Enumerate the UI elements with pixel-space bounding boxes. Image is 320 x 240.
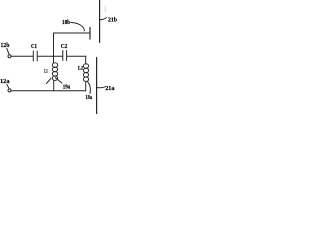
scan smudge (104, 7, 106, 13)
node junction A vertical (53, 33, 55, 57)
bottom wire (11, 90, 86, 92)
capacitor C1 (33, 51, 37, 61)
svg-text:18a: 18a (85, 95, 92, 101)
antenna rod 21b (99, 0, 101, 43)
leader 21b (100, 18, 106, 20)
leader 18a (88, 82, 91, 94)
svg-text:L1: L1 (44, 69, 48, 75)
wire C2 to corner (67, 55, 86, 57)
svg-text:12b: 12b (0, 42, 9, 49)
svg-text:C2: C2 (61, 43, 68, 50)
terminal 12a (8, 89, 11, 92)
terminal 12b (8, 55, 11, 58)
inductor L2 (83, 56, 88, 91)
capacitor C2 (63, 51, 67, 61)
svg-text:12a: 12a (0, 78, 10, 85)
leader 12a (7, 84, 9, 88)
svg-text:L2: L2 (78, 66, 83, 72)
leader 18b (71, 22, 85, 31)
svg-text:18b: 18b (62, 19, 70, 26)
coupling plate 18b (89, 28, 91, 40)
svg-text:21b: 21b (108, 17, 117, 24)
svg-text:19a: 19a (63, 85, 71, 91)
svg-text:C1: C1 (31, 43, 37, 50)
leader 12b (7, 49, 9, 54)
wire C1 to C2 (38, 55, 63, 57)
wire 12b to C1 (11, 55, 33, 57)
leader 19a (55, 78, 62, 84)
svg-text:21a: 21a (105, 85, 115, 92)
inductor L1 (52, 57, 57, 91)
leader 21a (97, 86, 105, 89)
antenna rod 21a (96, 58, 98, 114)
wire upper to plate (54, 32, 90, 34)
slider mark L1 (47, 78, 52, 83)
